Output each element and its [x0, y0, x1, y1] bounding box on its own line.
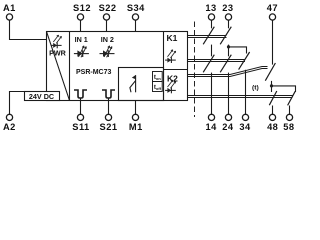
terminal A1 — [3, 3, 16, 20]
K1 linkage line — [188, 36, 227, 38]
wire S22 to box — [106, 20, 108, 31]
terminal S12 — [73, 3, 91, 20]
wire S21 to box — [108, 101, 110, 115]
svg-text:S22: S22 — [99, 3, 117, 13]
wire 47 upper — [272, 20, 274, 65]
terminal 58 — [283, 114, 294, 132]
contact K1 for 23-24 — [220, 27, 231, 45]
svg-text:IN 2: IN 2 — [101, 35, 114, 44]
wire A2 to 24VDC box — [10, 92, 25, 115]
terminal S22 — [99, 3, 117, 20]
PWR LED — [51, 35, 62, 48]
terminal 14 — [205, 114, 217, 132]
terminal A2 — [3, 114, 16, 132]
contact for 58 — [288, 91, 296, 105]
branch wire 23 to 33 contact — [229, 47, 247, 54]
timed contact for 47 — [265, 63, 275, 81]
K2 LED — [165, 80, 176, 93]
svg-text:34: 34 — [239, 122, 251, 132]
terminal 47 — [267, 3, 278, 20]
terminal M1 — [129, 114, 143, 132]
power section diagonal — [47, 32, 70, 101]
S11 pulse stub — [80, 98, 82, 101]
branch wire to 57 contact — [272, 86, 296, 92]
svg-text:48: 48 — [267, 122, 278, 132]
wire 23 upper — [228, 20, 230, 28]
wire 47 lower — [271, 81, 273, 92]
main module box — [47, 32, 188, 101]
svg-text:S21: S21 — [100, 122, 118, 132]
wire 13 middle — [211, 45, 213, 57]
t_on box — [153, 72, 163, 82]
svg-text:14: 14 — [205, 122, 217, 132]
node junction 23/33 — [227, 45, 230, 48]
terminal S11 — [72, 114, 89, 132]
contact K2 for 13-14 — [203, 55, 214, 73]
dash-dot separation line — [194, 22, 196, 118]
svg-text:K1: K1 — [167, 33, 178, 43]
wire S12 to box — [80, 20, 82, 31]
node junction 47/57 — [270, 84, 273, 87]
contact K2 for 23-24 — [220, 55, 231, 73]
terminal 23 — [222, 3, 233, 20]
terminal 13 — [205, 3, 216, 20]
power section divider — [69, 32, 71, 101]
terminal S34 — [127, 3, 145, 20]
wire to terminal 24 — [228, 73, 230, 115]
wire S11 to box — [80, 101, 82, 115]
wire to terminal 48 — [272, 106, 274, 115]
svg-text:A1: A1 — [3, 3, 16, 13]
timer switch symbol — [135, 75, 137, 92]
K section divider — [163, 32, 165, 101]
wire A1 to box — [10, 20, 47, 39]
wire S34 to box — [135, 20, 137, 31]
timer linkage line to 47 contact — [188, 67, 268, 77]
contact K2 for 33-34 — [239, 52, 250, 70]
contact for 48 — [269, 91, 277, 105]
svg-text:IN 1: IN 1 — [75, 35, 88, 44]
svg-text:M1: M1 — [129, 122, 143, 132]
IN1 LED — [74, 46, 89, 58]
terminal S21 — [100, 114, 118, 132]
svg-text:ton: ton — [154, 74, 161, 81]
timer linkage line to 48/58 contacts — [188, 96, 293, 98]
svg-text:(t): (t) — [252, 85, 259, 92]
svg-text:S12: S12 — [73, 3, 91, 13]
wire 23 middle — [228, 45, 230, 57]
wire 13 upper — [211, 20, 213, 28]
K1/K2 divider — [164, 69, 188, 71]
S11 pulse symbol — [74, 90, 87, 98]
svg-text:A2: A2 — [3, 122, 16, 132]
svg-text:24V DC: 24V DC — [29, 92, 54, 101]
svg-text:PWR: PWR — [49, 48, 67, 57]
wire to terminal 14 — [211, 73, 213, 115]
svg-text:toff: toff — [154, 84, 162, 91]
terminal 34 — [239, 114, 251, 132]
svg-text:47: 47 — [267, 3, 278, 13]
svg-text:58: 58 — [283, 122, 294, 132]
S21 pulse symbol — [102, 90, 115, 98]
K2 linkage line — [188, 60, 246, 62]
svg-text:S11: S11 — [72, 122, 89, 132]
terminal 24 — [222, 114, 234, 132]
wire to terminal 58 — [289, 106, 291, 115]
svg-text:23: 23 — [222, 3, 233, 13]
K1 LED — [165, 50, 176, 63]
svg-text:13: 13 — [205, 3, 216, 13]
svg-text:PSR-MC73: PSR-MC73 — [76, 69, 112, 76]
wire to terminal 34 — [245, 70, 247, 115]
t_off box — [153, 82, 163, 92]
contact K1 for 13-14 — [203, 27, 214, 45]
24V DC label box — [25, 92, 60, 101]
svg-text:S34: S34 — [127, 3, 145, 13]
IN2 LED — [100, 46, 115, 58]
timer inner box — [119, 68, 164, 101]
S21 pulse stub — [108, 98, 110, 101]
svg-text:24: 24 — [222, 122, 234, 132]
terminal 48 — [267, 114, 278, 132]
wire M1 to box — [135, 101, 137, 115]
